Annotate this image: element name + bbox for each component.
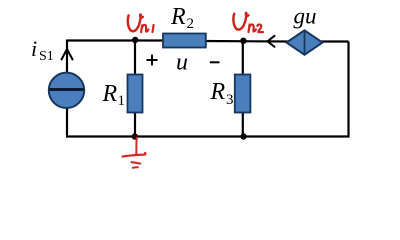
dependent source gu diamond bbox=[287, 30, 323, 55]
bottom ground node dot bbox=[132, 133, 138, 139]
current source bar bbox=[50, 88, 84, 91]
wire R1 branch upper bbox=[134, 40, 136, 75]
resistor R1 bbox=[128, 75, 143, 113]
resistor R3 bbox=[235, 75, 251, 113]
svg-text:S1: S1 bbox=[39, 49, 54, 64]
dependent source center line bbox=[304, 30, 306, 55]
current source iS1 bbox=[49, 73, 84, 108]
svg-text:u: u bbox=[176, 50, 188, 76]
node Un1 red handwritten label bbox=[128, 14, 154, 32]
current source iS1 arrow bbox=[62, 49, 73, 60]
node Un2 junction dot bbox=[240, 38, 246, 44]
wire top from R2 to dependent source bbox=[203, 40, 288, 43]
svg-text:R: R bbox=[102, 81, 118, 107]
wire left vertical above current source bbox=[66, 40, 68, 74]
wire top from current source to R2 bbox=[67, 39, 164, 41]
wire R3 branch upper bbox=[242, 41, 244, 75]
node Un2 red handwritten label bbox=[233, 13, 263, 32]
svg-text:R: R bbox=[210, 79, 226, 105]
svg-text:R: R bbox=[170, 4, 186, 30]
svg-text:gu: gu bbox=[294, 4, 317, 29]
wire right vertical bbox=[347, 42, 349, 138]
minus sign bbox=[210, 61, 220, 63]
ground bbox=[123, 138, 146, 168]
wire R3 branch lower bbox=[242, 112, 244, 137]
wire R1 branch lower bbox=[134, 112, 136, 137]
plus sign bbox=[147, 55, 158, 66]
current arrow on wire (pointing left) bbox=[268, 36, 275, 47]
svg-text:3: 3 bbox=[226, 92, 234, 108]
node Un1 junction dot bbox=[132, 37, 138, 43]
wire top from dependent source to right corner bbox=[321, 40, 349, 42]
svg-text:2: 2 bbox=[187, 16, 195, 32]
svg-text:1: 1 bbox=[118, 93, 126, 109]
wire bottom bbox=[66, 135, 350, 137]
wire left vertical below current source bbox=[66, 107, 68, 137]
svg-text:i: i bbox=[31, 36, 37, 61]
bottom right node dot bbox=[240, 133, 246, 139]
resistor R2 bbox=[163, 34, 206, 48]
